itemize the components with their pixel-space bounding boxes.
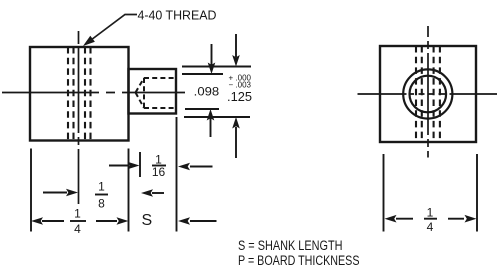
svg-text:1: 1 <box>74 207 81 221</box>
svg-text:8: 8 <box>98 197 105 211</box>
svg-text:.098: .098 <box>194 85 220 99</box>
svg-text:.125: .125 <box>227 90 252 104</box>
svg-text:4: 4 <box>74 222 81 236</box>
svg-text:− .003: − .003 <box>229 81 252 90</box>
svg-text:1: 1 <box>98 180 105 194</box>
svg-text:4: 4 <box>427 220 434 234</box>
svg-text:S = SHANK LENGTH: S = SHANK LENGTH <box>238 238 343 253</box>
svg-text:16: 16 <box>152 165 166 179</box>
svg-text:P = BOARD THICKNESS: P = BOARD THICKNESS <box>238 253 360 268</box>
svg-text:4-40 THREAD: 4-40 THREAD <box>138 9 217 23</box>
svg-text:S: S <box>142 212 153 229</box>
svg-text:1: 1 <box>427 206 434 220</box>
